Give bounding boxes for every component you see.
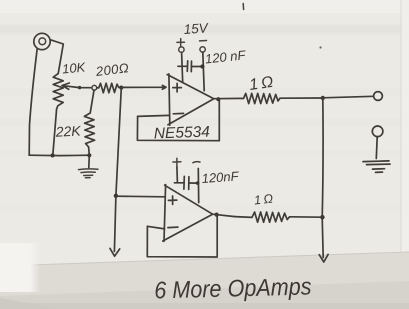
svg-text:120nF: 120nF [201, 168, 240, 186]
wire to lower opamp + input [116, 195, 165, 198]
opamp U1 plus sign [173, 83, 182, 92]
opamp U1 minus sign [173, 112, 183, 114]
resistor R1 1 ohm body [242, 93, 281, 103]
ground stub [375, 137, 378, 159]
supply terminal circle minus [200, 47, 205, 52]
paper tick top [242, 4, 244, 10]
node C2 right [196, 181, 200, 185]
resistor 22K bottom lead [88, 147, 91, 155]
node 22K bottom [87, 153, 91, 157]
output jack circle [374, 92, 383, 101]
feedback box left and bottom and right [137, 100, 219, 141]
node 200 ohm output junction [119, 86, 123, 90]
ground bars [363, 161, 390, 173]
wire junction to opamp + input [121, 85, 166, 89]
node open circle [92, 85, 97, 90]
wire wiper to open node [80, 87, 92, 89]
bottom-left light patch [0, 243, 40, 292]
resistor R2 1 ohm body [235, 212, 290, 222]
wire jack to pot top [51, 40, 64, 74]
wire plus supply down [182, 52, 183, 82]
wire down to arrow [114, 196, 116, 252]
wire R1 to output junction [280, 97, 321, 99]
wire U2 inverting to feedback [147, 226, 164, 229]
wire 22K top lead from open node [90, 90, 94, 113]
wire U1 output [214, 97, 242, 99]
potentiometer 10K bottom lead [53, 109, 57, 155]
wire jack down left side [29, 49, 37, 156]
wire junction down to lower stage [116, 88, 121, 196]
opamp U2 plus sign [168, 196, 176, 204]
resistor 22K body [84, 113, 94, 147]
capacitor C2 plates [184, 176, 189, 189]
capacitor C1 plates [187, 61, 191, 72]
node pot bottom [51, 153, 55, 157]
U2 supply plus mark [173, 158, 181, 165]
opamp U1 triangle [167, 74, 214, 125]
opamp U2 triangle [163, 185, 213, 242]
U2 feedback box [147, 216, 217, 257]
svg-text:6 More OpAmps: 6 More OpAmps [154, 272, 312, 303]
capacitor C1 leads [178, 65, 202, 67]
svg-text:1Ω: 1Ω [253, 191, 276, 207]
potentiometer 10K body [53, 74, 63, 109]
supply minus mark [200, 40, 207, 42]
U2 supply minus mark [193, 162, 200, 163]
ground under 22K stub [88, 155, 91, 167]
node U2 output junction [215, 213, 219, 217]
node wiper dot [78, 86, 81, 89]
svg-text:NE5534: NE5534 [154, 124, 211, 143]
wire U2 output [213, 214, 235, 216]
node lower-left junction [114, 194, 118, 198]
wire inverting input to feedback box [138, 115, 170, 116]
svg-text:15V: 15V [183, 20, 210, 37]
ground under 22K bars [79, 169, 99, 178]
ground jack circle [372, 126, 383, 137]
node output junction top [321, 96, 325, 100]
right vertical wire [322, 98, 323, 258]
wire R2 to right junction [290, 216, 323, 218]
potentiometer wiper arrow [62, 83, 79, 89]
bottom fold shading [0, 252, 409, 309]
node right lower junction [320, 215, 324, 219]
svg-text:22K: 22K [54, 122, 81, 139]
input jack J1 outer [34, 33, 50, 49]
svg-text:10K: 10K [61, 59, 87, 76]
node C1 right [200, 64, 204, 68]
supply terminal circle plus [179, 47, 184, 52]
opamp U2 minus sign [168, 226, 178, 229]
wire minus supply down [203, 52, 204, 91]
arrow down right [319, 254, 328, 262]
capacitor C2 leads [174, 182, 198, 184]
wire U2 minus supply down [197, 169, 199, 203]
paper speck [319, 46, 321, 48]
U2 supply left tick [176, 167, 179, 183]
arrow down left [110, 248, 120, 256]
bottom-left corner shade [0, 298, 60, 309]
resistor 200 ohm body [97, 83, 119, 93]
wire bottom-left horizontal [29, 154, 90, 156]
paper right edge [401, 0, 409, 309]
input jack J1 inner [39, 38, 46, 45]
supply plus mark [177, 39, 185, 47]
node U1 output junction [216, 97, 220, 101]
wire junction to output jack [323, 96, 374, 98]
